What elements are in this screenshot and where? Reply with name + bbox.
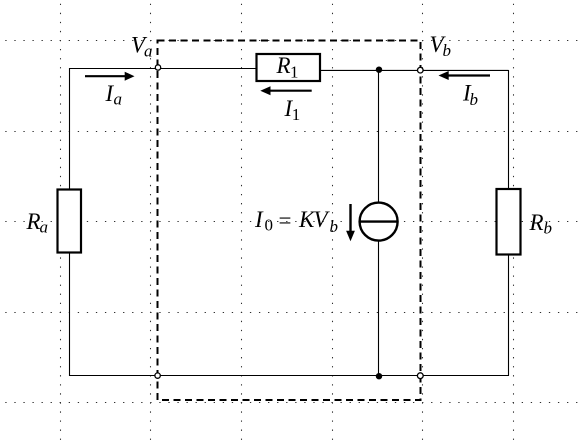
wire right vertical upper [508,70,510,190]
svg-text:0: 0 [265,215,274,234]
svg-text:I: I [254,207,264,232]
node Vb open terminal [418,67,424,73]
svg-text:a: a [40,218,49,237]
svg-text:1: 1 [290,63,299,82]
bottom-right open terminal [417,373,423,379]
wire middle vertical upper [378,70,380,204]
label Ia [105,81,123,109]
wire left vertical upper [69,68,71,190]
arrow I1 [260,86,311,95]
label I0 = KVb [254,207,338,236]
label Ra [26,209,49,237]
svg-text:a: a [144,42,153,61]
bottom-left open terminal [155,373,160,378]
label I1 [284,96,301,124]
label Va [131,32,153,60]
label R1 [276,53,299,82]
svg-text:=: = [279,208,292,233]
svg-text:b: b [544,219,553,238]
svg-text:b: b [443,41,452,60]
junction dot top [376,67,382,73]
dashed network boundary [158,41,421,401]
arrow Ia [85,72,135,81]
label Ib [462,80,478,109]
svg-text:b: b [470,90,479,109]
wire bottom horizontal [69,375,509,377]
wire right vertical lower [508,254,510,376]
junction dot bottom [376,373,382,379]
label Vb [430,32,452,60]
resistor Rb [497,189,521,255]
wire left vertical lower [69,252,71,376]
wire top-right horizontal [320,69,509,71]
current source I0 [360,203,398,241]
wire middle vertical lower [378,241,380,376]
svg-text:b: b [330,217,339,236]
svg-text:R: R [26,209,41,234]
node Va open terminal [155,65,160,70]
svg-text:R: R [276,53,291,78]
wire top-left horizontal [69,68,257,70]
arrow I0 direction (down) [346,204,355,241]
svg-text:a: a [114,90,123,109]
svg-text:R: R [529,210,544,235]
arrow Ib [439,71,491,80]
svg-text:1: 1 [292,105,301,124]
resistor Ra [58,190,82,253]
label Rb [529,210,553,238]
resistor R1 [257,54,321,81]
